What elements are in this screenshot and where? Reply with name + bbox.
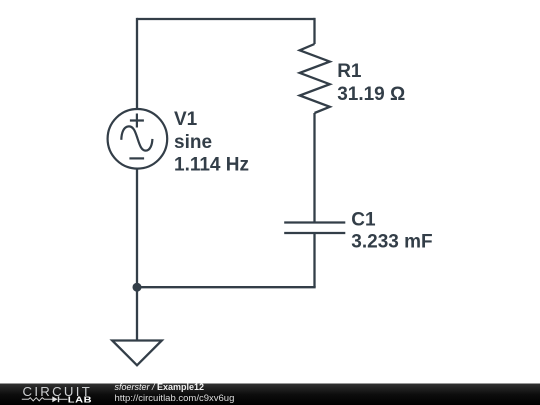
svg-text:31.19 Ω: 31.19 Ω [337,84,405,105]
svg-text:3.233 mF: 3.233 mF [351,231,432,252]
voltage source V1 [108,109,168,169]
footer bar [0,384,540,405]
junction node [133,283,142,292]
wire top horizontal [137,18,315,20]
svg-text:http://circuitlab.com/c9xv6ug: http://circuitlab.com/c9xv6ug [115,393,235,404]
wire V1 bottom lead [136,169,138,288]
wire R1 top lead [313,18,315,44]
wire bottom horizontal [137,286,316,288]
svg-text:R1: R1 [337,61,362,82]
wire R1 to C1 [313,113,315,223]
logo wire segment to LAB [59,398,68,400]
svg-text:1.114 Hz: 1.114 Hz [174,154,249,175]
svg-text:sfoerster / Example12: sfoerster / Example12 [115,382,205,392]
capacitor C1 [284,223,345,234]
svg-text:LAB: LAB [68,395,92,405]
wire junction to ground [136,287,138,340]
logo wire with resistor zigzag [22,398,53,401]
wire C1 bottom lead [313,233,315,287]
wire V1 top lead [136,18,138,109]
logo diode [52,396,57,402]
svg-text:C1: C1 [351,210,376,231]
svg-text:V1: V1 [174,109,198,130]
ground [112,341,162,366]
svg-text:sine: sine [174,132,212,153]
resistor R1 [300,44,330,113]
